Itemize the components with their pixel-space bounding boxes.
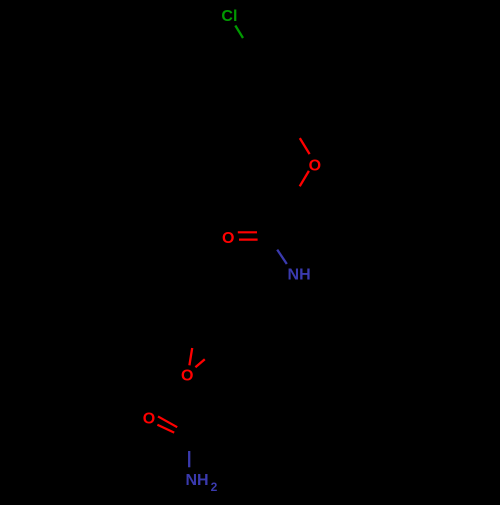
bond Cl–C(aryl), chlorine half — [235, 26, 243, 39]
bond C(=O)–N, nitrogen half — [277, 250, 287, 264]
bond C(=O)–N, nitrogen half vertical — [188, 451, 190, 467]
double bond C=O, oxygen half, lower line — [157, 425, 174, 433]
svg-text:Cl: Cl — [221, 8, 237, 25]
bond C(aryl)–O (ether), oxygen half upper — [300, 138, 310, 154]
bond C–O (epoxide), oxygen half diagonal — [195, 359, 204, 367]
svg-text:NH: NH — [185, 472, 208, 489]
double bond C=O, oxygen half, lower line — [239, 239, 258, 241]
double bond C=O, oxygen half, upper line — [158, 416, 177, 427]
bond O–CH2, oxygen half lower — [300, 171, 309, 186]
double bond C=O, oxygen half, upper line — [238, 231, 257, 233]
svg-text:2: 2 — [211, 480, 218, 494]
svg-text:O: O — [181, 368, 193, 385]
svg-text:O: O — [143, 411, 155, 428]
svg-text:O: O — [309, 157, 321, 174]
bond C–O (epoxide), oxygen half vertical — [189, 348, 192, 365]
svg-text:O: O — [222, 230, 234, 247]
svg-text:NH: NH — [288, 267, 311, 284]
